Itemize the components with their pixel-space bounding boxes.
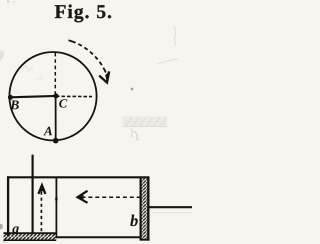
dashed radius C to right xyxy=(56,95,92,97)
dashed vertical radius (top to C) xyxy=(54,53,56,96)
curved rotation arrow (dash-dot arc) xyxy=(69,40,106,72)
node A dot xyxy=(53,138,59,144)
bleed speck upper right xyxy=(131,88,134,91)
paper background xyxy=(0,0,192,244)
ink speck left margin bottom xyxy=(0,224,3,230)
solid radius B to C xyxy=(11,96,57,97)
title Fig. 5. xyxy=(55,4,111,22)
bleed squiggle below band xyxy=(134,131,139,140)
node C dot xyxy=(54,93,59,98)
speck on partition xyxy=(55,198,57,201)
cylinder bottom wall (right part) xyxy=(56,236,142,238)
piston b xyxy=(140,177,150,241)
label b xyxy=(130,215,138,227)
label B xyxy=(10,100,19,109)
dashed flow arrow (pointing left) xyxy=(82,196,140,198)
bleed-through marks upper-left circle interior xyxy=(22,66,43,81)
hatched seat strip a (bottom left) xyxy=(3,233,56,240)
curved arrow head xyxy=(99,71,109,82)
valve rod (vertical line above box) xyxy=(31,155,33,233)
inner partition wall xyxy=(55,177,57,238)
faint squiggle top right xyxy=(174,26,176,46)
label A xyxy=(43,127,52,136)
bleed-through hatched band right side xyxy=(123,117,168,128)
label a xyxy=(12,226,19,233)
cylinder left wall xyxy=(7,176,9,236)
faint specks top corner xyxy=(7,0,9,2)
solid radius C down to A xyxy=(55,96,57,141)
label C xyxy=(59,99,67,107)
faint smudge below strip xyxy=(2,241,10,244)
cylinder top wall xyxy=(7,176,150,178)
bleed-through flourish below band xyxy=(131,129,134,138)
piston rod xyxy=(149,206,192,208)
dashed up arrow in valve chest xyxy=(38,185,45,194)
node B dot xyxy=(8,95,13,100)
bleed-through blob left margin xyxy=(0,50,5,61)
faint bleed line right of piston xyxy=(152,212,192,214)
circle xyxy=(9,52,96,140)
